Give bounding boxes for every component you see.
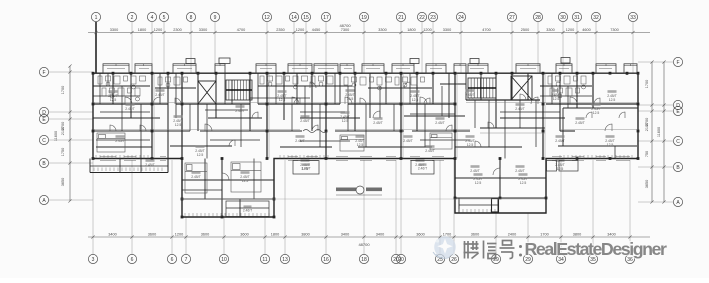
svg-text:12.5: 12.5 bbox=[242, 179, 249, 183]
svg-text:1800: 1800 bbox=[407, 28, 415, 32]
balcony planter bbox=[492, 199, 499, 213]
svg-text:12.5: 12.5 bbox=[412, 98, 419, 102]
svg-text:1200: 1200 bbox=[175, 233, 183, 237]
svg-text:12.5: 12.5 bbox=[110, 98, 117, 102]
svg-text:16: 16 bbox=[323, 257, 329, 263]
svg-text:12.5: 12.5 bbox=[475, 181, 482, 185]
furniture bbox=[97, 133, 452, 193]
svg-text:4700: 4700 bbox=[482, 28, 490, 32]
watermark chinese text 微信号: bbox=[464, 241, 523, 259]
svg-text:3400: 3400 bbox=[108, 233, 116, 237]
left dimension line bbox=[68, 64, 71, 202]
svg-text:12.5: 12.5 bbox=[197, 153, 204, 157]
svg-text:7300: 7300 bbox=[341, 28, 349, 32]
elevator shaft 1 bbox=[198, 81, 216, 104]
svg-text:23: 23 bbox=[430, 15, 436, 21]
top grid lines bbox=[96, 22, 633, 74]
svg-text:3600: 3600 bbox=[201, 233, 209, 237]
svg-text:28: 28 bbox=[535, 15, 541, 21]
balcony label boxes bbox=[226, 161, 578, 217]
wing extension line bbox=[180, 198, 545, 200]
svg-text:24: 24 bbox=[458, 15, 464, 21]
svg-text:8: 8 bbox=[190, 15, 193, 21]
bay windows above top wall bbox=[103, 58, 637, 74]
svg-text:2400: 2400 bbox=[508, 233, 516, 237]
svg-text:2.45/T: 2.45/T bbox=[515, 107, 525, 111]
svg-text:1700: 1700 bbox=[645, 80, 649, 88]
svg-text:2.45/T: 2.45/T bbox=[300, 119, 310, 123]
svg-text:2100: 2100 bbox=[645, 123, 649, 131]
right dimension numbers bbox=[645, 80, 661, 188]
svg-text:2.45/T: 2.45/T bbox=[115, 139, 125, 143]
svg-text:3650: 3650 bbox=[61, 178, 65, 186]
svg-text:12.5: 12.5 bbox=[175, 123, 182, 127]
svg-text:5: 5 bbox=[163, 15, 166, 21]
svg-text:48700: 48700 bbox=[339, 23, 351, 28]
kitchen and bath fixtures bbox=[98, 76, 586, 101]
svg-text:3800: 3800 bbox=[573, 233, 581, 237]
svg-text:2: 2 bbox=[131, 15, 134, 21]
svg-text:1750: 1750 bbox=[61, 148, 65, 156]
svg-text:4450: 4450 bbox=[312, 28, 320, 32]
svg-text:31: 31 bbox=[574, 15, 580, 21]
bottom dimension line bbox=[88, 235, 650, 238]
interior walls vertical bbox=[90, 73, 627, 217]
svg-text:12.5: 12.5 bbox=[342, 119, 349, 123]
svg-text:12.5: 12.5 bbox=[467, 143, 474, 147]
svg-text:3600: 3600 bbox=[416, 233, 424, 237]
svg-text:3300: 3300 bbox=[378, 28, 386, 32]
svg-text:D: D bbox=[42, 110, 46, 116]
svg-text:33: 33 bbox=[630, 15, 636, 21]
svg-text:2.45/T: 2.45/T bbox=[515, 169, 525, 173]
svg-text:2.45/T: 2.45/T bbox=[575, 121, 585, 125]
svg-text:12.5: 12.5 bbox=[467, 97, 474, 101]
svg-text:2.45/T: 2.45/T bbox=[295, 139, 305, 143]
bottom grid lines bbox=[93, 160, 630, 254]
svg-text:7: 7 bbox=[185, 257, 188, 263]
svg-text:3650: 3650 bbox=[645, 180, 649, 188]
svg-text:12.5: 12.5 bbox=[279, 98, 286, 102]
svg-text:3300: 3300 bbox=[110, 28, 118, 32]
svg-text:2.45/T: 2.45/T bbox=[373, 121, 383, 125]
svg-text:2300: 2300 bbox=[173, 28, 181, 32]
balcony rails bbox=[96, 155, 632, 217]
svg-text:12.5: 12.5 bbox=[607, 143, 614, 147]
svg-text:12.5: 12.5 bbox=[609, 98, 616, 102]
svg-text:2350: 2350 bbox=[276, 28, 284, 32]
svg-text:9: 9 bbox=[214, 15, 217, 21]
svg-text:21: 21 bbox=[398, 15, 404, 21]
left dimension numbers bbox=[54, 86, 65, 186]
svg-text:27: 27 bbox=[509, 15, 515, 21]
window glazing lines bbox=[100, 69, 630, 161]
left grid axis bubbles bbox=[39, 67, 48, 204]
svg-text:2.46/T: 2.46/T bbox=[418, 167, 427, 171]
svg-text:2.45/T: 2.45/T bbox=[435, 121, 445, 125]
svg-text:22: 22 bbox=[419, 15, 425, 21]
svg-text:750: 750 bbox=[645, 151, 649, 157]
svg-text:7300: 7300 bbox=[610, 28, 618, 32]
svg-text:2.46/T: 2.46/T bbox=[243, 209, 252, 213]
svg-text:4: 4 bbox=[151, 15, 154, 21]
staircase 1 bbox=[226, 80, 252, 100]
svg-text:1700: 1700 bbox=[443, 233, 451, 237]
watermark wechat icon bbox=[433, 236, 456, 258]
svg-text:18: 18 bbox=[361, 257, 367, 263]
svg-text:3400: 3400 bbox=[341, 233, 349, 237]
svg-text:1800: 1800 bbox=[271, 233, 279, 237]
svg-text:F: F bbox=[42, 70, 45, 76]
svg-text:2.45/T: 2.45/T bbox=[425, 149, 435, 153]
building outer wall bbox=[93, 73, 638, 217]
svg-text:2.45/T: 2.45/T bbox=[145, 163, 155, 167]
svg-text:3300: 3300 bbox=[546, 28, 554, 32]
svg-text:3300: 3300 bbox=[199, 28, 207, 32]
svg-text:1700: 1700 bbox=[61, 86, 65, 94]
grid line 1 heavy bbox=[95, 22, 97, 73]
svg-text:2.45/T: 2.45/T bbox=[470, 169, 480, 173]
svg-text:13: 13 bbox=[282, 257, 288, 263]
bottom grid axis bubbles bbox=[88, 254, 634, 263]
svg-text:6: 6 bbox=[131, 257, 134, 263]
left balcony rail bbox=[94, 168, 162, 172]
svg-text:1200: 1200 bbox=[423, 28, 431, 32]
svg-text:1200: 1200 bbox=[154, 28, 162, 32]
svg-text:14: 14 bbox=[291, 15, 297, 21]
svg-text:12.5: 12.5 bbox=[347, 97, 354, 101]
svg-text:2500: 2500 bbox=[521, 28, 529, 32]
svg-text:6: 6 bbox=[171, 257, 174, 263]
svg-text:C: C bbox=[42, 138, 46, 144]
svg-text:2.45/T: 2.45/T bbox=[191, 175, 201, 179]
structural columns bbox=[92, 72, 640, 219]
svg-text:12: 12 bbox=[264, 15, 270, 21]
svg-text:2100: 2100 bbox=[61, 127, 65, 135]
svg-text:3300: 3300 bbox=[443, 28, 451, 32]
svg-text:RealEstateDesigner: RealEstateDesigner bbox=[525, 239, 667, 259]
svg-text:12.5: 12.5 bbox=[357, 143, 364, 147]
svg-text:15: 15 bbox=[303, 15, 309, 21]
svg-text:19: 19 bbox=[361, 15, 367, 21]
svg-text:4700: 4700 bbox=[237, 28, 245, 32]
top grid axis bubbles bbox=[91, 12, 637, 21]
svg-text:C: C bbox=[676, 139, 680, 145]
svg-text:3400: 3400 bbox=[607, 233, 615, 237]
svg-text:2.45/T: 2.45/T bbox=[555, 139, 565, 143]
door swing arcs bbox=[110, 82, 625, 180]
right grid axis bubbles bbox=[673, 57, 682, 206]
svg-text:11600: 11600 bbox=[54, 131, 58, 141]
svg-text:3400: 3400 bbox=[376, 233, 384, 237]
svg-text:1800: 1800 bbox=[138, 28, 146, 32]
svg-text:12.5: 12.5 bbox=[593, 111, 600, 115]
svg-text:12.5: 12.5 bbox=[520, 181, 527, 185]
top dimension numbers bbox=[110, 28, 619, 32]
svg-text:1: 1 bbox=[95, 15, 98, 21]
svg-text:48700: 48700 bbox=[358, 242, 370, 247]
plan title text bbox=[336, 186, 382, 195]
top dimension line bbox=[88, 31, 650, 34]
staircase 2 bbox=[468, 78, 496, 98]
break line squiggle bbox=[303, 130, 327, 133]
interior walls horizontal bbox=[90, 84, 638, 208]
svg-text:3600: 3600 bbox=[471, 233, 479, 237]
svg-text:2.46/T: 2.46/T bbox=[301, 167, 310, 171]
bottom dimension numbers bbox=[108, 233, 615, 237]
svg-text:2.45/T: 2.45/T bbox=[125, 107, 135, 111]
svg-text:2.45/T: 2.45/T bbox=[155, 93, 165, 97]
svg-text:2.45/T: 2.45/T bbox=[403, 139, 413, 143]
svg-text:17: 17 bbox=[323, 15, 329, 21]
svg-text:12.5: 12.5 bbox=[557, 167, 564, 171]
svg-text:1700: 1700 bbox=[540, 233, 548, 237]
svg-text:3600: 3600 bbox=[148, 233, 156, 237]
right dimension lines bbox=[650, 60, 665, 203]
svg-text:4600: 4600 bbox=[582, 28, 590, 32]
svg-text:3: 3 bbox=[92, 257, 95, 263]
double wall lines bbox=[93, 73, 638, 158]
svg-text:3800: 3800 bbox=[301, 233, 309, 237]
svg-text:3600: 3600 bbox=[240, 233, 248, 237]
svg-text:10: 10 bbox=[221, 257, 227, 263]
svg-text:11600: 11600 bbox=[657, 127, 661, 137]
svg-text:30: 30 bbox=[560, 15, 566, 21]
svg-text:11: 11 bbox=[262, 257, 267, 263]
room labels bbox=[108, 89, 617, 185]
svg-text:F: F bbox=[676, 60, 679, 66]
svg-text:2.45/T: 2.45/T bbox=[235, 109, 245, 113]
svg-text:1200: 1200 bbox=[296, 28, 304, 32]
svg-text:20: 20 bbox=[398, 257, 404, 263]
svg-text:1200: 1200 bbox=[566, 28, 574, 32]
svg-text:32: 32 bbox=[593, 15, 599, 21]
elevator shaft 2 bbox=[511, 76, 532, 100]
svg-text:12.5: 12.5 bbox=[553, 97, 560, 101]
svg-text:26: 26 bbox=[451, 257, 457, 263]
